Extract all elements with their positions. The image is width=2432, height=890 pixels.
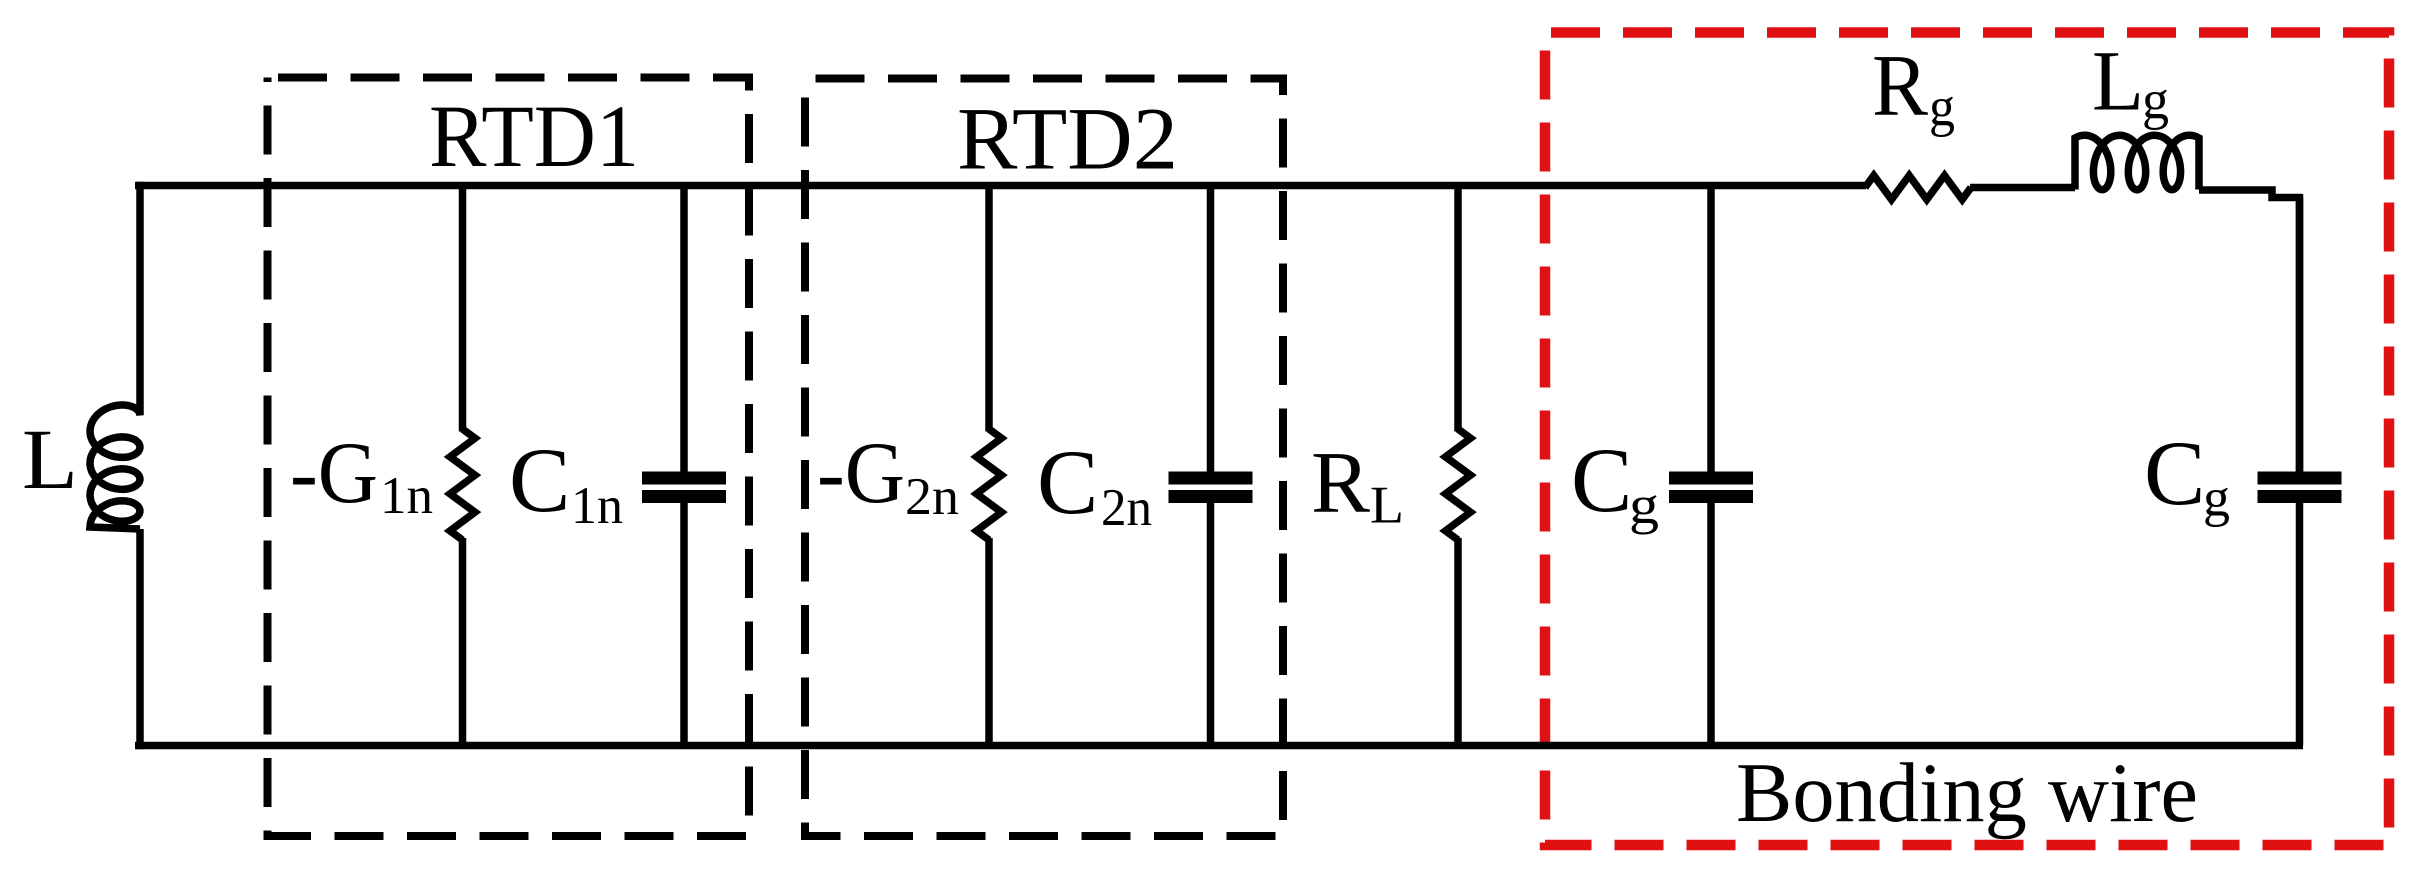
wire bottom horizontal: [135, 742, 2303, 750]
wire top right of Lg with step down: [2199, 190, 2302, 198]
wire top horizontal: [135, 182, 1866, 190]
svg-text:g: g: [1929, 77, 1955, 138]
inductor L: [90, 403, 140, 529]
resistor Rg: [1865, 176, 1971, 200]
svg-text:1n: 1n: [380, 467, 433, 525]
resistor -G1n: [459, 186, 467, 432]
svg-text:g: g: [1629, 475, 1659, 535]
resistor -G2n: [985, 186, 993, 432]
svg-text:L: L: [22, 411, 78, 507]
svg-text:C: C: [2144, 422, 2205, 524]
svg-text:-G: -G: [817, 425, 905, 522]
wire top right of Rg: [1970, 184, 2075, 192]
capacitor Cg right: [2296, 198, 2304, 473]
svg-text:RTD1: RTD1: [429, 88, 639, 186]
RTD2 dashed box: [805, 79, 1283, 837]
svg-text:L: L: [2092, 33, 2144, 129]
svg-text:2n: 2n: [1101, 479, 1152, 537]
inductor Lg: [2075, 135, 2199, 190]
wire left vertical upper: [136, 182, 144, 403]
svg-text:2n: 2n: [905, 468, 959, 526]
wire left vertical lower: [136, 529, 144, 749]
resistor RL: [1454, 186, 1462, 432]
svg-text:Bonding wire: Bonding wire: [1736, 746, 2198, 840]
svg-text:L: L: [1370, 476, 1404, 534]
wire right vertical upper: [2296, 194, 2304, 473]
capacitor C1n: [680, 186, 688, 473]
svg-text:1n: 1n: [571, 477, 623, 535]
Bonding wire red dashed box: [1545, 33, 2389, 846]
svg-text:g: g: [2203, 468, 2230, 528]
svg-text:R: R: [1311, 435, 1370, 532]
svg-text:C: C: [509, 429, 570, 531]
svg-text:-G: -G: [290, 425, 378, 522]
svg-text:C: C: [1037, 431, 1098, 533]
capacitor C2n: [1207, 186, 1215, 473]
svg-text:RTD2: RTD2: [957, 91, 1178, 189]
capacitor Cg left: [1707, 186, 1715, 473]
svg-text:R: R: [1872, 38, 1928, 135]
svg-text:C: C: [1571, 429, 1632, 531]
RTD1 dashed box: [268, 78, 750, 837]
svg-text:g: g: [2142, 70, 2169, 131]
